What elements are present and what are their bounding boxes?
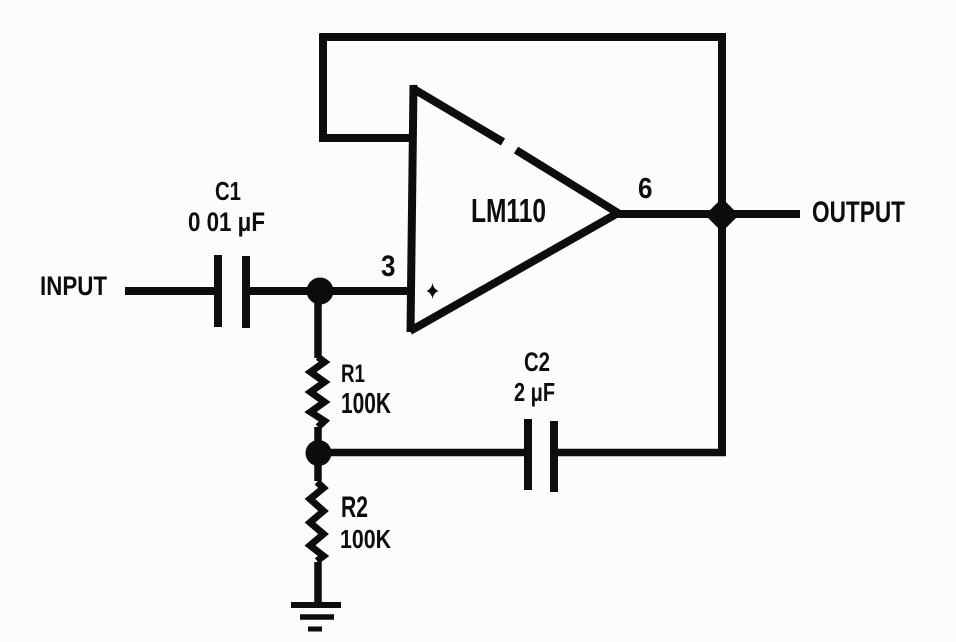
svg-text:0 01 μF: 0 01 μF	[188, 208, 265, 238]
svg-text:3: 3	[381, 249, 395, 282]
svg-text:100K: 100K	[340, 526, 391, 554]
wire: C2 to feedback vertical	[558, 449, 726, 457]
node A (input junction)	[307, 278, 334, 305]
wire: R2 to ground	[314, 562, 322, 604]
wire: feedback right vertical	[718, 34, 726, 454]
svg-text:6: 6	[638, 172, 652, 205]
wire: node A down to R1	[314, 291, 322, 358]
svg-text:R1: R1	[341, 360, 365, 387]
wire: loop left vertical	[319, 34, 327, 143]
node B (R1/R2/C2 junction)	[306, 440, 332, 466]
wire: node B to C2	[318, 449, 524, 457]
node: output junction	[707, 200, 738, 231]
resistor R2	[310, 482, 324, 561]
wire: input lead	[125, 287, 215, 295]
op-amp non-inverting + mark	[427, 283, 439, 299]
ground	[291, 605, 341, 629]
wire: R1 bottom to node B	[314, 427, 322, 453]
svg-text:OUTPUT: OUTPUT	[812, 195, 905, 228]
wire: output lead	[618, 210, 800, 218]
wire: loop bottom horizontal to op-amp	[320, 134, 416, 142]
wire: feedback top horizontal	[320, 33, 727, 41]
svg-text:C2: C2	[524, 347, 550, 377]
capacitor C2	[528, 419, 554, 492]
wire: node B down to R2	[314, 453, 322, 481]
wire: C1 to op-amp pin 3	[250, 287, 412, 295]
op-amp U1 LM110	[410, 85, 618, 332]
svg-text:R2: R2	[341, 490, 368, 524]
svg-text:2 μF: 2 μF	[514, 379, 555, 407]
svg-text:C1: C1	[215, 178, 241, 206]
svg-text:100K: 100K	[341, 387, 391, 419]
svg-text:LM110: LM110	[471, 192, 546, 230]
resistor R1	[311, 357, 325, 427]
capacitor C1	[218, 255, 246, 328]
svg-text:INPUT: INPUT	[40, 272, 108, 301]
